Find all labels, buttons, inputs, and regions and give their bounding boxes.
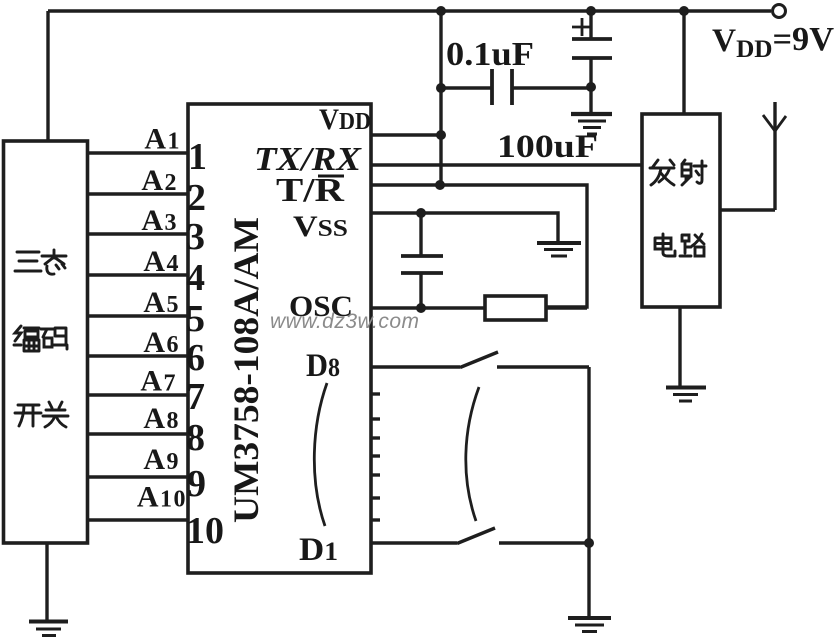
node junction at electrolytic column on rail (586, 6, 596, 16)
svg-text:1: 1 (188, 136, 207, 178)
wire encoder ground lead (45, 543, 48, 620)
capacitor C 0.1uF plates (492, 69, 512, 105)
transmitter label char dian (circuit-1) (655, 234, 675, 256)
svg-text:A4: A4 (143, 245, 180, 278)
IC U1 UM3758-108A/AM body (188, 104, 371, 573)
svg-text:2: 2 (187, 177, 206, 219)
transmitter module box (642, 114, 720, 307)
node VDD terminal circle (773, 5, 786, 18)
wire transmitter to antenna (720, 208, 775, 211)
antenna mast (773, 102, 776, 210)
transmitter label char fa (emit-1) (650, 160, 674, 185)
svg-text:A10: A10 (137, 481, 187, 514)
wire A8 (87, 432, 188, 435)
node junction electrolytic to 0.1uF (586, 82, 596, 92)
encoder label char kai (switch-1) (15, 405, 41, 426)
transmitter label char she (emit-2) (682, 160, 706, 185)
wire transmitter ground lead (678, 307, 681, 386)
wire A3 (87, 232, 188, 235)
capacitor C2 osc top lead (419, 213, 422, 256)
capacitor C 100uF electrolytic plates (572, 39, 612, 58)
wire A6 (87, 354, 188, 357)
CJK-GLYPHS (14, 160, 706, 427)
wire data switch bus vertical (587, 367, 590, 617)
wire resistor right lead (546, 306, 587, 309)
svg-text:www.dz3w.com: www.dz3w.com (270, 310, 420, 333)
ground below transmitter (666, 386, 706, 390)
encoder label char ma (code-2) (41, 328, 67, 349)
wire A5 (87, 314, 188, 317)
ground at VSS (537, 241, 581, 245)
node junction OSC cap top (416, 208, 426, 218)
svg-text:A2: A2 (141, 164, 178, 197)
pin stub D7 (371, 392, 380, 395)
svg-text:A5: A5 (143, 286, 180, 319)
svg-text:D1: D1 (299, 532, 338, 568)
pin stub D3 (371, 473, 380, 476)
svg-text:VDD: VDD (319, 103, 371, 136)
svg-text:A3: A3 (141, 204, 178, 237)
wire transmitter supply drop x=684 (682, 11, 685, 114)
svg-text:5: 5 (186, 298, 205, 340)
resistor R1 osc (485, 296, 546, 320)
switch S D1 blade (457, 528, 495, 544)
wire A10 (87, 518, 188, 521)
svg-text:4: 4 (186, 257, 205, 299)
encoder label char bian (code-1) (14, 326, 39, 351)
wire A2 (87, 192, 188, 195)
capacitor C 100uF electrolytic polarity plus (572, 18, 592, 36)
wire TX/RX pin to transmitter (371, 163, 642, 166)
wire top VDD rail (48, 9, 771, 12)
svg-text:UM3758-108A/AM: UM3758-108A/AM (226, 217, 266, 523)
overline of R in T/R (318, 175, 344, 178)
wire VSS pin (371, 213, 558, 242)
svg-text:VSS: VSS (293, 210, 348, 243)
svg-text:A8: A8 (143, 402, 180, 435)
svg-text:9: 9 (187, 463, 206, 505)
svg-text:VDD=9V: VDD=9V (712, 21, 834, 63)
encoder label char guan (switch-2) (43, 402, 68, 427)
wire D1 switch to bus (499, 541, 589, 544)
wire T/R pin loop (371, 185, 587, 307)
svg-text:T/R: T/R (276, 172, 345, 209)
node junction OSC cap bottom (416, 303, 426, 313)
wire A7 (87, 393, 188, 396)
node junction at 0.1uF column on rail (436, 6, 446, 16)
svg-text:D8: D8 (306, 348, 340, 384)
svg-text:A1: A1 (144, 123, 181, 156)
wire squiggle ellipsis inside IC D8-D1 (314, 383, 327, 526)
node junction at transmitter column on rail (679, 6, 689, 16)
pin stub D2b (371, 518, 380, 521)
node junction VDD pin wire (436, 130, 446, 140)
encoder switch S1 box (4, 141, 88, 543)
svg-text:A7: A7 (140, 365, 177, 398)
svg-text:0.1uF: 0.1uF (446, 36, 534, 73)
transmitter label char lu (circuit-2) (680, 234, 704, 256)
ground below encoder box (29, 620, 68, 624)
wire A4 (87, 273, 188, 276)
wire OSC pin (371, 306, 485, 309)
wire D1 pin (371, 541, 457, 544)
wire 0.1uF left lead (441, 86, 492, 89)
wire D8 pin (371, 365, 460, 368)
encoder label char tai (state) (42, 250, 66, 274)
svg-text:3: 3 (186, 216, 205, 258)
node junction T/R wire to VDD branch (435, 180, 445, 190)
svg-text:7: 7 (186, 376, 205, 418)
wire electrolytic top lead (589, 11, 592, 38)
svg-text:8: 8 (186, 417, 205, 459)
svg-text:6: 6 (186, 337, 205, 379)
node junction 0.1uF left lead (436, 83, 446, 93)
switch S D8 blade (460, 352, 498, 368)
wire VDD pin (371, 133, 441, 136)
capacitor C2 osc bottom lead (419, 273, 422, 308)
wire D8 switch to bus (497, 365, 589, 368)
wire vertical VDD branch x=441 down to T/R wire (439, 11, 442, 185)
wire left drop from rail to encoder box (46, 11, 49, 141)
svg-text:10: 10 (186, 510, 224, 552)
pin stub D6 (371, 417, 380, 420)
wire A1 (87, 151, 188, 154)
ground below electrolytic (571, 112, 612, 116)
wire electrolytic bottom lead (589, 58, 592, 113)
capacitor C2 osc plates (401, 256, 443, 273)
antenna arrow chevron (763, 115, 786, 131)
svg-text:A6: A6 (143, 326, 180, 359)
encoder label char san (three) (15, 252, 41, 271)
wire A9 (87, 475, 188, 478)
pin stub D2 (371, 496, 380, 499)
pin stub D5 (371, 436, 380, 439)
node junction D1 bus (584, 538, 594, 548)
svg-text:100uF: 100uF (497, 129, 598, 165)
svg-text:A9: A9 (143, 443, 180, 476)
ground below data bus (568, 616, 611, 620)
pin stub D4 (371, 454, 380, 457)
wire squiggle ellipsis between switches (466, 387, 479, 521)
wire 0.1uF right lead (512, 86, 591, 89)
